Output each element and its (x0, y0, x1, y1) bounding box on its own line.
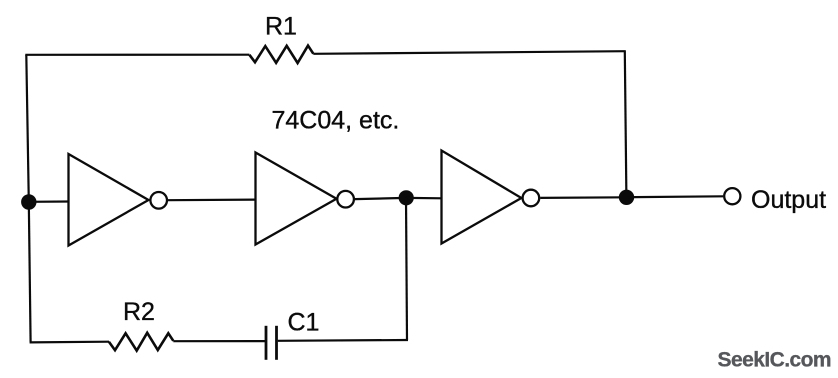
capacitor C1 (266, 326, 277, 360)
resistor R2 (109, 333, 173, 351)
wire top horizontal left of R1 (25, 54, 249, 56)
svg-text:Output: Output (751, 186, 826, 214)
svg-text:R1: R1 (265, 13, 297, 41)
svg-text:SeekIC.com: SeekIC.com (718, 349, 832, 372)
wire node C to output terminal (627, 195, 724, 198)
wire U3 output to node C (540, 196, 626, 199)
inverter U3 (442, 151, 540, 244)
svg-text:C1: C1 (288, 309, 320, 337)
wire bottom horizontal left of R2 (30, 341, 109, 344)
svg-text:R2: R2 (123, 298, 155, 326)
wire node B to inverter U3 input (406, 197, 442, 200)
wire U2 output to node B (355, 198, 406, 199)
inverter U1 (69, 154, 168, 246)
svg-text:74C04, etc.: 74C04, etc. (272, 107, 400, 135)
node B (middle junction) (399, 190, 414, 205)
inverter U2 (256, 153, 354, 245)
wire R2 to C1 (173, 340, 266, 342)
resistor R1 (249, 46, 313, 63)
wire feedback vertical down to output node (625, 51, 627, 197)
wire bottom-right vertical up to node B (406, 198, 407, 340)
wire C1 to bottom-right corner (278, 339, 408, 342)
wire top-left vertical (26, 55, 29, 202)
node A (left junction) (21, 194, 36, 209)
wire U1 output to U2 input (168, 199, 256, 202)
node C (output junction) (619, 190, 634, 205)
wire bottom-left vertical (29, 202, 31, 342)
wire node A to inverter U1 input (29, 200, 69, 203)
terminal Output (open circle) (724, 188, 740, 204)
wire top horizontal right of R1 (313, 51, 626, 54)
